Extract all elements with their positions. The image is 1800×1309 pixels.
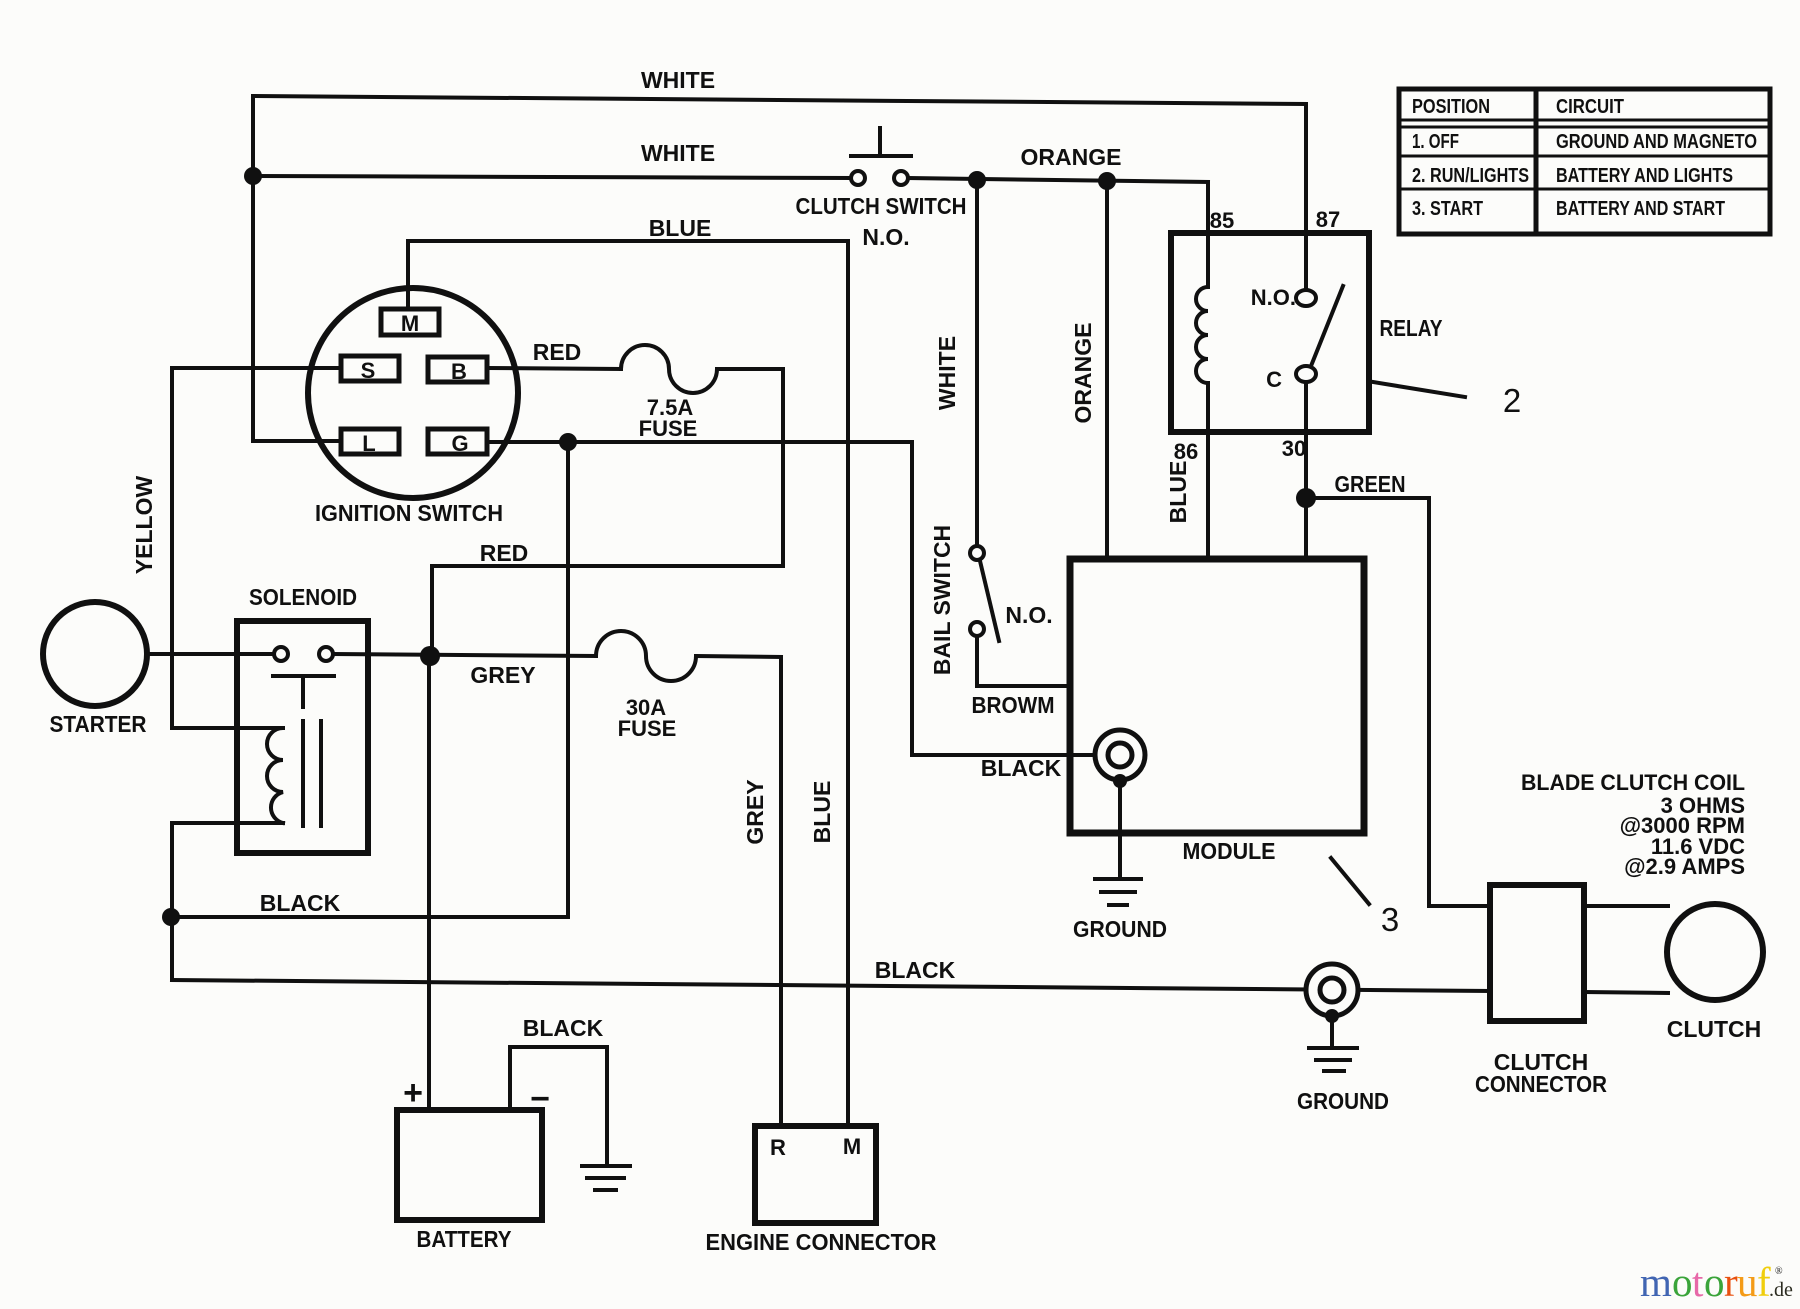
svg-text:N.O.: N.O. [1251,285,1296,310]
svg-text:FUSE: FUSE [639,416,698,441]
wire white left vertical [251,96,255,441]
ignition terminal B [428,357,487,382]
svg-text:RELAY: RELAY [1380,315,1443,341]
wire blue M stem [406,241,410,309]
solenoid coil [267,728,283,823]
fuse 30A [596,631,696,681]
svg-text:BLACK: BLACK [981,755,1062,781]
svg-text:3. START: 3. START [1412,198,1483,220]
junction green [1296,488,1316,508]
wire connector to clutch top [1584,904,1668,908]
svg-text:1. OFF: 1. OFF [1412,131,1459,153]
wire white top horizontal [253,96,1306,104]
bail switch contact bottom [970,622,984,636]
svg-text:®: ® [1775,1266,1783,1277]
svg-text:BLADE CLUTCH COIL: BLADE CLUTCH COIL [1521,770,1745,795]
wire fuse to red corner [717,367,783,371]
engine connector box [755,1126,876,1223]
junction G branch [559,433,577,451]
ignition terminal L [341,429,399,454]
wire black into module [912,753,1096,757]
svg-text:BROWM: BROWM [972,692,1055,718]
svg-text:CLUTCH SWITCH: CLUTCH SWITCH [796,193,967,219]
wire brown to module [977,636,1070,686]
junction black [162,908,180,926]
svg-text:IGNITION SWITCH: IGNITION SWITCH [315,500,503,526]
svg-text:L: L [362,431,375,456]
svg-text:S: S [361,358,376,383]
svg-text:30: 30 [1282,436,1306,461]
svg-text:M: M [843,1134,861,1159]
clutch ground ring terminal [1306,964,1358,1016]
solenoid box [237,621,368,853]
svg-text:STARTER: STARTER [50,711,147,737]
ground battery [582,1164,630,1168]
junction white lines [244,167,262,185]
wire grey vertical to engine connector [779,657,783,1126]
wire black long ground line [172,980,1490,991]
wire starter to solenoid contact [147,652,274,656]
svg-text:CLUTCH: CLUTCH [1667,1016,1762,1042]
svg-text:GROUND: GROUND [1297,1088,1389,1114]
wire coil top lead [172,726,283,730]
svg-text:BAIL SWITCH: BAIL SWITCH [929,525,955,675]
fuse 7.5A [621,345,717,393]
svg-text:BLUE: BLUE [809,781,835,844]
svg-text:@2.9 AMPS: @2.9 AMPS [1624,854,1745,879]
wire relay 87 lead [1304,104,1308,290]
svg-text:YELLOW: YELLOW [131,476,157,575]
wire module ground stub [1118,781,1122,877]
svg-text:BLACK: BLACK [260,890,341,916]
svg-text:GREEN: GREEN [1335,471,1406,497]
ground module [1095,877,1141,881]
module box [1070,559,1364,833]
svg-text:BLACK: BLACK [875,957,956,983]
svg-text:ORANGE: ORANGE [1021,144,1122,170]
svg-text:CIRCUIT: CIRCUIT [1556,96,1624,118]
svg-text:GREY: GREY [470,662,535,688]
svg-text:2: 2 [1503,382,1521,419]
wire yellow vertical [170,368,174,728]
clutch switch contact left [851,171,865,185]
wire black horizontal mid [171,915,568,919]
wire blue vertical to engine connector [846,241,850,1126]
clutch connector box [1490,885,1584,1021]
relay contact N.O. [1296,290,1316,306]
svg-text:RED: RED [480,540,529,566]
relay box [1171,233,1369,432]
wire green [1306,498,1490,906]
svg-text:BATTERY: BATTERY [417,1226,512,1252]
wire red vertical [781,369,785,566]
ignition switch circle [308,288,518,498]
wire ignition S lead [172,366,343,370]
svg-text:3: 3 [1381,901,1399,938]
wire relay 86 lead [1206,383,1210,559]
svg-text:BLUE: BLUE [649,215,712,241]
relay contact C [1296,366,1316,382]
wire clutch ground stub [1330,1016,1334,1047]
wire black module vertical [910,442,914,755]
svg-text:ORANGE: ORANGE [1070,323,1096,424]
svg-text:B: B [451,359,467,384]
solenoid core lines [301,721,305,826]
battery box [397,1110,542,1220]
solenoid contact left [274,647,288,661]
wire coil bottom lead [172,821,283,825]
wire G branch vertical [566,442,570,917]
svg-text:N.O.: N.O. [1005,602,1052,628]
svg-text:WHITE: WHITE [641,140,715,166]
svg-text:BLACK: BLACK [523,1015,604,1041]
module ring terminal [1095,730,1145,780]
svg-text:85: 85 [1210,208,1234,233]
wire fuse to grey corner [696,656,781,657]
svg-text:CONNECTOR: CONNECTOR [1475,1071,1607,1097]
svg-text:POSITION: POSITION [1412,96,1490,118]
ignition terminal S [341,356,399,381]
svg-text:N.O.: N.O. [862,224,909,250]
wire battery positive vertical [427,656,431,1110]
svg-text:BATTERY AND START: BATTERY AND START [1556,198,1725,220]
wire ignition L lead [253,439,343,443]
bail switch arm [980,561,999,641]
wire orange horizontal [908,178,1208,182]
solenoid contact right [319,647,333,661]
ground clutch [1309,1046,1357,1050]
wire coil down to black junction [170,823,174,980]
wire ignition B to fuse [487,368,621,369]
junction solenoid/red/battery [420,646,440,666]
svg-text:WHITE: WHITE [641,67,715,93]
wire white vertical to bail switch [975,180,979,546]
svg-text:G: G [451,431,468,456]
svg-text:GREY: GREY [742,779,768,844]
bail switch contact top [970,546,984,560]
svg-text:BATTERY AND LIGHTS: BATTERY AND LIGHTS [1556,165,1733,187]
svg-text:M: M [401,311,419,336]
wire blue horizontal [408,239,848,243]
svg-text:motoruf.de: motoruf.de [1640,1259,1793,1305]
wire battery negative [510,1047,607,1164]
leader line 3 [1331,858,1369,904]
solenoid plunger [273,674,334,678]
svg-text:GROUND: GROUND [1073,916,1167,942]
clutch switch contact right [894,171,908,185]
svg-text:87: 87 [1316,207,1340,232]
junction white branch [968,171,986,189]
clutch switch plunger [878,128,882,156]
svg-text:ENGINE CONNECTOR: ENGINE CONNECTOR [706,1229,937,1255]
svg-text:2. RUN/LIGHTS: 2. RUN/LIGHTS [1412,165,1529,187]
svg-text:FUSE: FUSE [618,716,677,741]
svg-text:MODULE: MODULE [1183,838,1276,864]
svg-text:+: + [403,1074,423,1112]
svg-text:GROUND AND MAGNETO: GROUND AND MAGNETO [1556,131,1757,153]
svg-text:WHITE: WHITE [934,336,960,410]
clutch circle [1667,904,1763,1000]
wire orange vertical to module [1105,181,1109,559]
svg-text:RED: RED [533,339,582,365]
svg-text:86: 86 [1174,439,1198,464]
relay coil [1196,287,1208,383]
svg-text:C: C [1266,367,1282,392]
wire red drop to solenoid junction [430,566,434,656]
wire relay 85 lead [1206,182,1210,287]
starter circle [43,602,147,706]
relay arm [1311,286,1343,366]
motoruf.de watermark [1640,1259,1793,1305]
junction orange branch [1098,172,1116,190]
wire connector to clutch bottom [1584,992,1668,993]
wire red horizontal lower [432,564,783,568]
svg-text:−: − [530,1080,550,1118]
wire ignition G to module branch [487,440,912,444]
svg-text:SOLENOID: SOLENOID [249,584,357,610]
ignition terminal G [428,429,487,454]
svg-text:BLUE: BLUE [1165,461,1191,524]
svg-text:R: R [770,1135,786,1160]
wire solenoid right contact to fuse [333,654,596,656]
wire relay 30 lead [1304,382,1308,559]
wire white second horizontal [253,176,852,178]
leader line 2 [1373,382,1465,397]
ignition terminal M [381,309,439,335]
position/circuit table [1399,89,1770,234]
